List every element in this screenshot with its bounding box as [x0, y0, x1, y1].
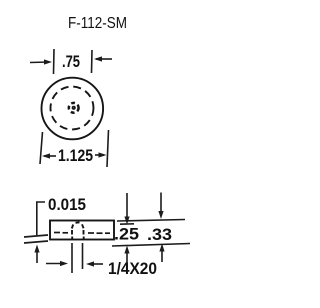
bottom face extension line (right, long) [112, 244, 190, 247]
hidden thread hole right dashed side [83, 230, 85, 240]
dimension 1/4X20 left arrow [46, 261, 68, 266]
side view body rectangle [50, 221, 114, 240]
dimension .33 value label [147, 226, 172, 244]
hidden center line left dashes [54, 232, 68, 234]
svg-text:F-112-SM: F-112-SM [68, 15, 127, 32]
dimension 1.125 right extension line [107, 130, 109, 167]
dimension 1.125 value label [58, 147, 93, 165]
dimension .25 lower arrow pointing up [124, 246, 129, 264]
dimension .33 upper arrow pointing down [158, 193, 163, 220]
svg-text:1.125: 1.125 [58, 147, 93, 165]
hidden center line right dashes [88, 232, 110, 234]
center hole small dashed circle [69, 103, 79, 113]
knob inner dashed circle [51, 87, 94, 130]
dimension 1/4X20 value label [108, 260, 157, 278]
svg-text:.33: .33 [147, 226, 172, 244]
svg-text:0.015: 0.015 [48, 196, 86, 214]
thread hole right extension line [82, 243, 84, 269]
dimension 1.125 left arrow [42, 153, 56, 158]
dimension .25 upper arrow pointing down [124, 193, 129, 225]
dimension 1.125 left extension line [40, 132, 43, 164]
thin gap bottom tick [24, 241, 48, 243]
dimension 0.015 value label [48, 196, 86, 214]
.25 top tick [120, 223, 134, 225]
dimension .75 value label [62, 53, 80, 71]
svg-text:.25: .25 [114, 226, 139, 244]
hidden thread hole dashed dome [72, 222, 84, 228]
knob outer circle (top view) [42, 78, 104, 140]
svg-text:1/4X20: 1/4X20 [108, 260, 157, 278]
dimension 0.015 lower arrow pointing up [34, 245, 39, 264]
dimension .33 lower arrow pointing up [159, 244, 164, 263]
thin gap top tick [24, 235, 48, 237]
dimension .75 right arrow [94, 56, 112, 61]
thread hole left extension line [71, 243, 73, 273]
svg-text:.75: .75 [62, 53, 80, 71]
dimension .75 right extension line [91, 50, 94, 73]
hidden thread hole left dashed side [71, 230, 73, 240]
top face extension line (right, long) [117, 220, 185, 222]
dimension .75 left extension line [53, 49, 56, 74]
dimension 1/4X20 right arrow [86, 261, 103, 266]
dimension 1.125 right arrow [95, 152, 107, 157]
title F-112-SM [68, 15, 127, 32]
dimension 0.015 leader [37, 202, 45, 235]
dimension .25 value label [114, 226, 139, 244]
dimension .75 left arrow [30, 59, 52, 64]
